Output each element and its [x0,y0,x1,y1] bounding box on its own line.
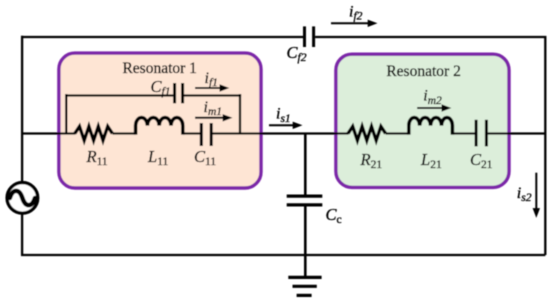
capacitor Cf2 [305,26,314,47]
branch wire right of Cf1 [184,94,241,96]
current arrow im2 [417,104,451,111]
wire left edge lower [21,213,23,256]
capacitor C21 [476,120,486,147]
wire top-right segment and right edge [315,37,545,255]
resistor R11 [75,126,113,140]
capacitor Cf1 [175,83,183,103]
wire bottom edge [21,254,545,256]
current arrow im1 [195,114,233,121]
AC source [7,183,38,214]
svg-text:Resonator 2: Resonator 2 [386,63,460,80]
resonator 2 box [336,54,509,187]
svg-text:Cc: Cc [326,205,342,226]
wire main middle segment [213,132,349,134]
wire between L21 and C21 [451,132,474,134]
wire between L11 and C11 [183,132,200,134]
svg-text:Resonator 1: Resonator 1 [122,60,196,77]
wire main right segment [488,132,545,134]
current arrow if1 [195,84,229,91]
wire Cc to ground [304,206,307,276]
resistor R21 [348,126,386,140]
branch vertical left (Cf1 branch) [65,94,67,134]
inductor L11 [136,118,183,135]
wire between R21 and L21 [386,132,410,134]
wire top-left segment [21,36,303,38]
svg-text:if2: if2 [349,4,363,23]
wire left edge upper [21,36,23,183]
ground [288,277,321,295]
resonator 1 box [59,53,261,188]
current arrow if2 [331,20,378,27]
wire main left segment [21,132,75,134]
svg-text:is1: is1 [276,106,291,125]
capacitor C11 [201,123,211,146]
inductor L21 [409,118,453,135]
current arrow is1 [269,122,303,129]
wire between R11 and L11 [112,132,136,134]
current arrow is2 [533,173,540,218]
node Cc branch top [304,134,307,195]
svg-text:is2: is2 [517,185,532,204]
branch vertical right (Cf1 branch) [239,94,241,134]
capacitor Cc [287,196,323,205]
branch wire left of Cf1 [65,94,173,96]
